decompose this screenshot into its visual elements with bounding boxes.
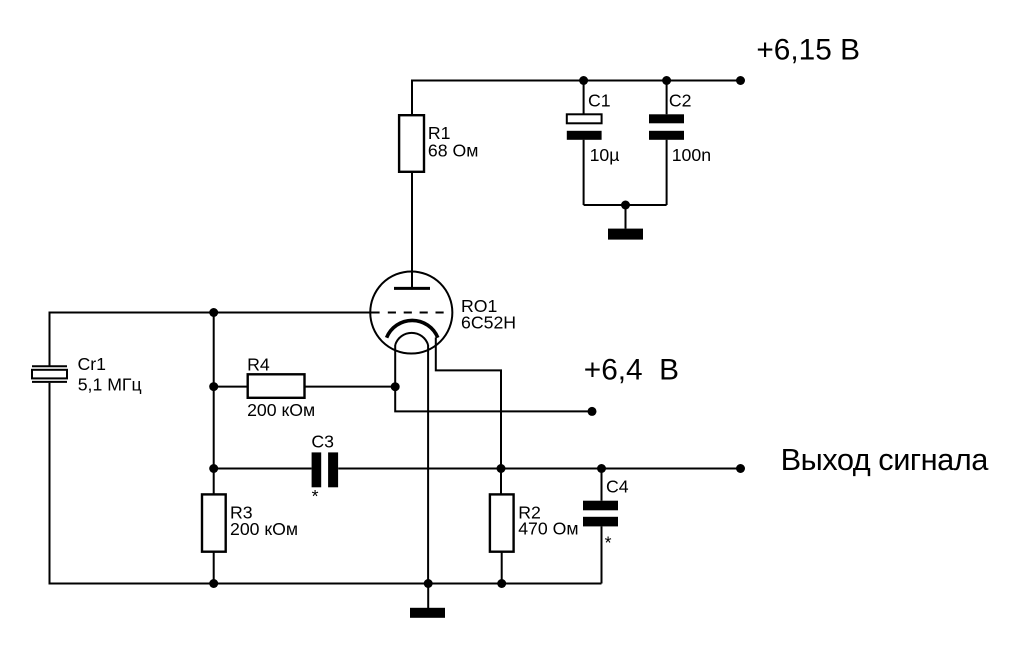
svg-text:200 кОм: 200 кОм (230, 519, 298, 539)
wire R3 bottom to bottom rail (213, 552, 215, 584)
wire cathode lead to R2 (436, 338, 501, 494)
resistor R2 (490, 494, 514, 551)
svg-text:6C52H: 6C52H (461, 312, 516, 332)
wire C2 bottom lead (666, 140, 668, 205)
wire heater right leg to bottom rail (427, 345, 429, 584)
node R2 top junction (497, 464, 506, 473)
wire C1 bottom lead (583, 140, 585, 205)
svg-text:*: * (312, 486, 319, 506)
svg-text:200 кОм: 200 кОм (247, 400, 315, 420)
wire ground stub under C1/C2 (625, 205, 627, 229)
wire center bus from grid node down to R3 (213, 313, 215, 495)
wire C1 top lead (583, 81, 585, 115)
wire R1 bottom to tube anode (411, 171, 413, 290)
capacitor C2 (649, 114, 684, 123)
wire bottom rail (49, 583, 602, 585)
svg-text:10µ: 10µ (590, 145, 620, 165)
wire C4 bottom lead (601, 526, 603, 583)
node C1 top junction (579, 76, 588, 85)
capacitor C4 (583, 501, 618, 511)
resistor R4 (248, 374, 305, 398)
svg-text:470 Ом: 470 Ом (518, 519, 578, 539)
svg-text:+6,4 В: +6,4 В (584, 353, 679, 386)
wire heater left leg to +6,4 terminal (395, 345, 592, 411)
svg-text:C2: C2 (669, 90, 692, 110)
wire C4 top lead (601, 469, 603, 501)
tube RO1 envelope (370, 271, 452, 353)
node R4 left junction (209, 382, 218, 391)
resistor R3 (202, 494, 226, 551)
node C1/C2 ground junction (621, 201, 630, 210)
capacitor C3 (312, 452, 322, 487)
node C3 left junction (209, 464, 218, 473)
tube RO1 grid (dashed) (388, 312, 444, 314)
capacitor C1 (polarized, hollow top plate) (567, 114, 602, 123)
node grid/bus junction (209, 308, 218, 317)
wire signal line left of C3 (214, 468, 312, 470)
wire C2 top lead (666, 81, 668, 115)
wire C1-C2 bottom connector (584, 204, 667, 206)
svg-text:Выход сигнала: Выход сигнала (781, 442, 990, 477)
svg-text:100n: 100n (672, 145, 711, 165)
wire tube grid to left rail (50, 312, 380, 314)
svg-text:C4: C4 (606, 476, 629, 496)
node bottom rail / ground junction (424, 579, 433, 588)
wire crystal to bottom rail (49, 383, 51, 585)
svg-text:+6,15 В: +6,15 В (756, 33, 860, 66)
wire signal line right of C3 to output terminal (338, 468, 740, 470)
node +6,15 В terminal (736, 76, 745, 85)
tube RO1 cathode arc (387, 320, 438, 337)
node output terminal (736, 464, 745, 473)
svg-text:68 Ом: 68 Ом (428, 140, 479, 160)
node C2 top junction (662, 76, 671, 85)
svg-text:*: * (605, 533, 612, 553)
ground under C1/C2 (608, 229, 643, 240)
node bottom rail / R2 junction (497, 579, 506, 588)
svg-text:C1: C1 (588, 90, 611, 110)
wire ground stub bottom (427, 584, 429, 609)
resistor R1 (399, 115, 424, 172)
svg-text:Cr1: Cr1 (78, 354, 107, 374)
node +6,4 В terminal (588, 407, 597, 416)
tube RO1 anode plate (394, 287, 430, 290)
wire R2 bottom to bottom rail (501, 552, 503, 584)
wire R4 right lead (306, 386, 396, 388)
svg-text:R4: R4 (247, 354, 270, 374)
tube RO1 heater arc (395, 333, 428, 345)
wire R4 left lead (214, 386, 247, 388)
svg-text:5,1 МГц: 5,1 МГц (78, 375, 142, 395)
crystal Cr1 (32, 365, 67, 367)
svg-text:C3: C3 (311, 431, 334, 451)
node C4 top junction (597, 464, 606, 473)
wire left rail top to crystal (49, 312, 51, 366)
ground bottom (cathode circuit) (410, 608, 445, 618)
node bottom rail / R3 junction (209, 579, 218, 588)
wire top rail from R1 top to +6,15 terminal (412, 81, 741, 116)
node R4 right / heater junction (391, 382, 400, 391)
